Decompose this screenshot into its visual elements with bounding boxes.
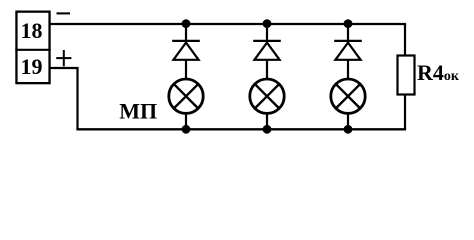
wire: branch 1 drop to diode: [185, 24, 187, 42]
svg-text:R4ок: R4ок: [417, 60, 460, 85]
lamp HL1: [169, 79, 203, 113]
wire: branch 1 lamp to bottom rail: [185, 113, 187, 129]
lamp HL3: [331, 79, 365, 113]
diode VD3 (cathode bar up): [334, 41, 362, 60]
wire: bottom positive rail: [76, 128, 406, 130]
svg-text:19: 19: [21, 54, 43, 79]
node: branch 2 top junction: [263, 19, 272, 28]
wire: branch 3 drop to diode: [347, 24, 349, 42]
wire: right branch down to resistor: [404, 24, 406, 56]
wire: resistor to bottom rail: [404, 95, 406, 130]
node: branch 3 bottom junction: [344, 125, 353, 134]
wire: branch 1 diode to lamp: [185, 60, 187, 80]
terminal block X1: [15, 12, 50, 84]
wire: branch 2 diode to lamp: [266, 60, 268, 80]
diode VD1 (cathode bar up): [172, 41, 200, 60]
wire: branch 2 drop to diode: [266, 24, 268, 42]
wire: branch 3 diode to lamp: [347, 60, 349, 80]
node: branch 2 bottom junction: [263, 125, 272, 134]
wire: branch 2 lamp to bottom rail: [266, 113, 268, 129]
node: branch 3 top junction: [344, 19, 353, 28]
polarity minus label: [57, 12, 71, 14]
wire: top negative rail from pin 18 to resistor branch: [50, 23, 407, 25]
node: branch 1 bottom junction: [182, 125, 191, 134]
wire: from pin 19 (+) right then down: [50, 67, 79, 129]
lamp HL2: [250, 79, 284, 113]
svg-text:МП: МП: [119, 99, 157, 124]
wire: branch 3 lamp to bottom rail: [347, 113, 349, 129]
diode VD2 (cathode bar up): [253, 41, 281, 60]
polarity plus label: [56, 50, 71, 66]
node: branch 1 top junction: [182, 19, 191, 28]
svg-text:18: 18: [21, 18, 43, 43]
resistor R4ok: [398, 56, 415, 95]
